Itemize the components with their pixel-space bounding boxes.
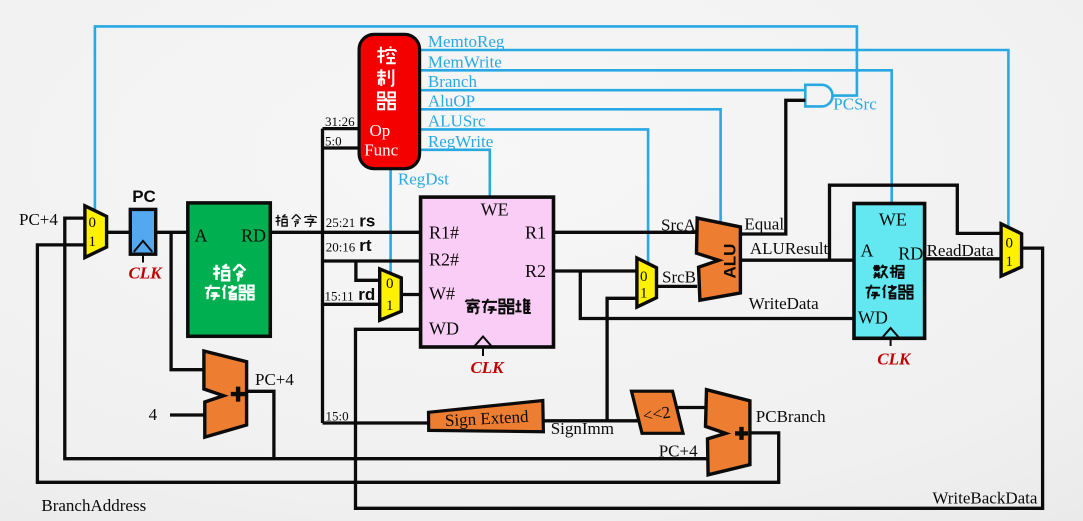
svg-text:R2#: R2# — [429, 250, 459, 270]
wire RegDst mux out to W# — [401, 293, 420, 296]
svg-text:1: 1 — [89, 234, 97, 250]
wire MemtoReg — [420, 50, 1009, 227]
wire ALUResult over memory to mux input 0 — [830, 185, 1002, 260]
svg-text:1: 1 — [386, 298, 394, 314]
wire rd 15:11 — [323, 303, 380, 306]
wire constant 4 input — [170, 413, 205, 416]
svg-text:BranchAddress: BranchAddress — [41, 496, 146, 515]
svg-text:15:0: 15:0 — [326, 409, 349, 424]
wire Equal to AND gate — [740, 100, 805, 234]
svg-text:MemtoReg: MemtoReg — [428, 32, 505, 51]
wire WriteData — [580, 271, 854, 319]
svg-text:PC+4: PC+4 — [659, 442, 698, 461]
svg-text:CLK: CLK — [470, 358, 505, 377]
svg-text:31:26: 31:26 — [325, 114, 355, 129]
svg-text:0: 0 — [89, 215, 97, 231]
wire shift out to PCBranch adder — [677, 406, 707, 409]
svg-text:RD: RD — [241, 226, 266, 246]
wire ReadData — [925, 257, 1002, 260]
shifter <<2 — [632, 391, 684, 433]
wire WriteBackData loop — [356, 248, 1043, 508]
svg-text:ALUSrc: ALUSrc — [428, 111, 486, 130]
wire Op 31:26 — [323, 127, 360, 130]
wire PC to PC+4 adder — [171, 232, 204, 369]
svg-text:RD: RD — [898, 244, 923, 264]
svg-text:CLK: CLK — [877, 350, 912, 369]
wire PCSrc select to PC mux — [95, 26, 857, 210]
svg-text:WE: WE — [481, 200, 509, 220]
svg-text:Branch: Branch — [428, 72, 478, 91]
svg-text:4: 4 — [149, 405, 158, 424]
data memory — [854, 204, 925, 339]
svg-text:SrcB: SrcB — [662, 268, 696, 287]
svg-text:0: 0 — [1005, 236, 1013, 252]
svg-text:WE: WE — [879, 210, 907, 230]
svg-text:ReadData: ReadData — [927, 241, 994, 260]
wire imm 15:0 — [323, 421, 430, 424]
svg-text:1: 1 — [640, 285, 648, 301]
svg-text:WD: WD — [429, 318, 459, 338]
svg-text:Op: Op — [370, 121, 391, 140]
wire mux to PC — [107, 231, 131, 234]
mux MemtoReg — [1001, 224, 1022, 276]
wire MemWrite — [420, 70, 892, 203]
svg-text:PCSrc: PCSrc — [833, 95, 877, 114]
svg-text:W#: W# — [429, 283, 455, 303]
svg-text:MemWrite: MemWrite — [428, 52, 502, 71]
wire RegDst — [389, 168, 392, 273]
wire AluOP — [420, 109, 721, 223]
adder PCBranch — [706, 390, 750, 475]
svg-text:RegDst: RegDst — [398, 170, 449, 189]
instruction memory — [188, 203, 270, 336]
svg-text:rt: rt — [359, 236, 372, 255]
wire R1 to SrcA — [554, 231, 698, 234]
svg-text:ALUResult: ALUResult — [750, 239, 829, 258]
ALU — [697, 218, 741, 300]
svg-text:AluOP: AluOP — [428, 91, 475, 110]
svg-text:rd: rd — [358, 285, 375, 304]
svg-text:A: A — [861, 241, 874, 261]
controller — [359, 34, 420, 168]
svg-text:rs: rs — [359, 212, 375, 231]
wire PC out — [156, 231, 188, 234]
svg-text:WD: WD — [858, 308, 888, 328]
svg-text:CLK: CLK — [128, 263, 163, 282]
wire rs 25:21 — [323, 231, 421, 234]
svg-text:R1#: R1# — [429, 222, 459, 242]
wire ALUSrc — [420, 129, 648, 263]
mux PC source — [85, 206, 107, 258]
wire SignImm up to SrcB mux input 1 — [607, 298, 637, 421]
svg-text:SignImm: SignImm — [551, 419, 614, 438]
wire PC+4 from adder down — [247, 391, 274, 458]
wire RegWrite — [420, 150, 490, 197]
register file — [421, 197, 554, 347]
svg-text:0: 0 — [640, 269, 648, 285]
svg-text:5:0: 5:0 — [325, 134, 342, 149]
svg-text:WriteBackData: WriteBackData — [932, 489, 1037, 508]
wire rt 20:16 — [323, 259, 421, 262]
AND gate PCSrc — [805, 85, 832, 107]
svg-text:RegWrite: RegWrite — [428, 132, 493, 151]
svg-text:PC+4: PC+4 — [255, 370, 294, 389]
svg-text:15:11: 15:11 — [325, 288, 354, 303]
wire ALUResult — [740, 259, 854, 262]
svg-text:WriteData: WriteData — [749, 294, 820, 313]
svg-text:PC+4: PC+4 — [19, 210, 58, 229]
svg-text:A: A — [195, 226, 208, 246]
svg-text:Func: Func — [364, 140, 398, 159]
sign extend — [429, 401, 544, 432]
svg-text:R2: R2 — [525, 261, 546, 281]
label instruction word — [276, 214, 317, 226]
svg-text:SrcA: SrcA — [661, 216, 697, 235]
wire BranchAddress — [37, 245, 778, 482]
svg-text:20:16: 20:16 — [326, 240, 356, 255]
svg-text:R1: R1 — [525, 222, 546, 242]
wire SignImm — [543, 419, 638, 422]
svg-text:Equal: Equal — [744, 214, 784, 233]
register PC — [130, 209, 155, 254]
adder PC+4 — [204, 351, 247, 437]
svg-text:ALU: ALU — [720, 244, 739, 279]
mux SrcB — [637, 258, 657, 307]
wire SrcB mux out — [657, 285, 698, 288]
wire Branch — [420, 89, 806, 92]
svg-text:PC: PC — [132, 187, 156, 206]
svg-text:25:21: 25:21 — [326, 215, 356, 230]
wire PC+4 loop to mux input 0 — [65, 218, 707, 459]
svg-text:0: 0 — [386, 276, 394, 292]
svg-text:1: 1 — [1005, 254, 1013, 270]
wire Func 5:0 — [323, 146, 360, 149]
wire rt branch to RegDst mux input 0 — [356, 261, 380, 280]
svg-text:PCBranch: PCBranch — [756, 407, 826, 426]
wire instruction word — [270, 231, 322, 234]
wire R2 to SrcB mux input 0 — [554, 269, 637, 272]
wire instruction bus vertical — [321, 129, 324, 423]
mux RegDst — [380, 269, 402, 320]
